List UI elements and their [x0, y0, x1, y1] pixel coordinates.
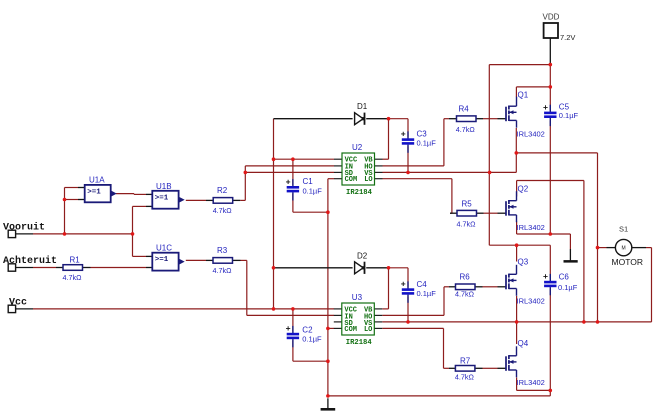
svg-text:IRL3402: IRL3402: [517, 223, 545, 232]
svg-text:7.2V: 7.2V: [560, 33, 575, 42]
svg-text:COM: COM: [344, 326, 357, 334]
svg-text:Achteruit: Achteruit: [3, 255, 57, 267]
svg-text:R4: R4: [459, 104, 470, 113]
svg-text:4.7kΩ: 4.7kΩ: [457, 219, 477, 228]
svg-text:IR2184: IR2184: [346, 339, 373, 347]
svg-text:>=1: >=1: [155, 256, 169, 264]
svg-text:S1: S1: [619, 225, 628, 234]
svg-text:D2: D2: [357, 251, 368, 260]
svg-text:4.7kΩ: 4.7kΩ: [455, 290, 475, 299]
svg-text:R1: R1: [70, 255, 81, 264]
svg-text:U1B: U1B: [156, 182, 172, 191]
svg-text:Vooruit: Vooruit: [3, 222, 45, 234]
svg-text:R3: R3: [217, 246, 228, 255]
svg-text:0.1µF: 0.1µF: [559, 111, 579, 120]
svg-text:C5: C5: [559, 102, 570, 111]
svg-text:U1C: U1C: [156, 244, 172, 253]
svg-text:+: +: [543, 271, 548, 281]
svg-text:C4: C4: [417, 280, 428, 289]
svg-text:Q4: Q4: [518, 339, 529, 348]
svg-text:0.1µF: 0.1µF: [417, 138, 437, 147]
svg-text:+: +: [401, 279, 406, 289]
svg-text:M: M: [622, 246, 626, 252]
svg-text:Q3: Q3: [518, 258, 529, 267]
svg-text:0.1µF: 0.1µF: [417, 289, 437, 298]
svg-text:R2: R2: [217, 186, 228, 195]
svg-text:0.1µF: 0.1µF: [303, 187, 323, 196]
svg-text:Q1: Q1: [518, 91, 529, 100]
svg-text:COM: COM: [345, 176, 358, 184]
svg-text:IRL3402: IRL3402: [517, 297, 545, 306]
svg-text:+: +: [543, 102, 548, 112]
svg-text:IRL3402: IRL3402: [517, 130, 545, 139]
svg-text:LO: LO: [364, 176, 372, 184]
svg-text:R6: R6: [460, 273, 471, 282]
svg-text:0.1µF: 0.1µF: [302, 335, 322, 344]
svg-text:0.1µF: 0.1µF: [558, 283, 578, 292]
svg-text:4.7kΩ: 4.7kΩ: [456, 125, 476, 134]
svg-text:U2: U2: [352, 143, 363, 152]
svg-text:C2: C2: [302, 325, 313, 334]
svg-text:U3: U3: [352, 293, 363, 302]
svg-text:LO: LO: [364, 326, 372, 334]
svg-text:C1: C1: [303, 177, 314, 186]
svg-text:Vcc: Vcc: [9, 297, 27, 308]
svg-text:C6: C6: [559, 272, 570, 281]
svg-text:+: +: [286, 323, 291, 333]
svg-text:R7: R7: [460, 356, 471, 365]
svg-text:D1: D1: [357, 102, 368, 111]
svg-text:IR2184: IR2184: [346, 189, 373, 197]
svg-text:>=1: >=1: [87, 188, 101, 196]
svg-text:Q2: Q2: [518, 185, 529, 194]
svg-text:4.7kΩ: 4.7kΩ: [213, 266, 233, 275]
svg-text:>=1: >=1: [155, 194, 169, 202]
svg-text:4.7kΩ: 4.7kΩ: [455, 372, 475, 381]
svg-text:+: +: [286, 176, 291, 186]
svg-text:C3: C3: [417, 129, 428, 138]
svg-text:MOTOR: MOTOR: [612, 257, 643, 267]
svg-text:VDD: VDD: [543, 13, 560, 22]
svg-text:U1A: U1A: [89, 175, 105, 184]
svg-text:4.7kΩ: 4.7kΩ: [63, 273, 83, 282]
svg-text:R5: R5: [462, 199, 473, 208]
svg-text:4.7kΩ: 4.7kΩ: [213, 206, 233, 215]
svg-text:IRL3402: IRL3402: [517, 378, 545, 387]
svg-text:+: +: [401, 129, 406, 139]
